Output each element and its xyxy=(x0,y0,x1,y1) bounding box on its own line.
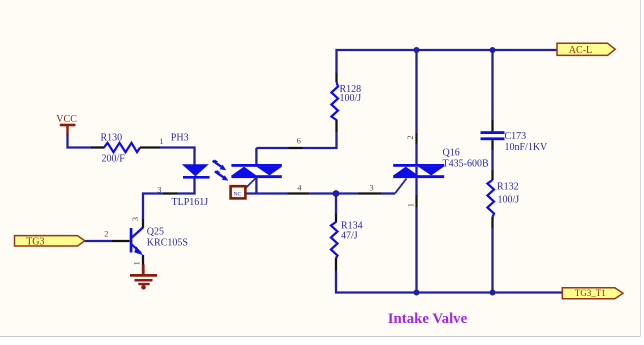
wire C173 branch from top rail xyxy=(491,50,493,120)
title Intake Valve xyxy=(388,311,468,327)
ground xyxy=(130,265,157,290)
resistor R130 xyxy=(101,133,141,165)
port TG3_T1 xyxy=(562,288,623,299)
svg-text:6: 6 xyxy=(297,136,302,146)
svg-text:100/J: 100/J xyxy=(340,93,362,104)
svg-text:C173: C173 xyxy=(505,131,527,142)
svg-text:1: 1 xyxy=(132,261,142,265)
pin 3 of U1 xyxy=(157,184,177,194)
svg-text:47/J: 47/J xyxy=(341,231,358,242)
wire pin3 to Q25 collector xyxy=(143,194,163,220)
svg-text:2: 2 xyxy=(104,229,108,239)
svg-text:T435-600B: T435-600B xyxy=(443,158,489,169)
no-ERC marker NC box xyxy=(231,186,246,198)
svg-text:200/F: 200/F xyxy=(102,153,126,164)
svg-text:TG3: TG3 xyxy=(26,237,44,248)
svg-text:3: 3 xyxy=(369,182,373,192)
wire pin2 to triac body xyxy=(415,144,417,165)
pin R128.top xyxy=(335,73,337,83)
svg-text:Intake Valve: Intake Valve xyxy=(388,311,468,327)
wire LED cathode down to pin3 net xyxy=(178,178,195,194)
svg-text:4: 4 xyxy=(297,183,302,193)
svg-text:R130: R130 xyxy=(101,133,123,144)
wire R134 to bottom rail xyxy=(336,271,563,293)
resistor R132 xyxy=(487,180,519,217)
transistor Q25 xyxy=(130,226,188,255)
wire Q16 pin1 down to bottom rail xyxy=(415,207,417,293)
wire mid net: NC box to junction xyxy=(247,192,288,194)
power port VCC xyxy=(56,114,77,135)
svg-text:1: 1 xyxy=(159,136,163,146)
resistor R128 xyxy=(331,82,361,120)
svg-text:10nF/1KV: 10nF/1KV xyxy=(505,142,549,153)
junction (492.5,50) xyxy=(490,47,496,53)
part name TLP161J xyxy=(172,197,209,208)
pin R132.top xyxy=(491,170,493,180)
svg-text:Q16: Q16 xyxy=(443,148,460,159)
port TG3 xyxy=(15,236,85,248)
pin 3 of Q25 (collector) xyxy=(130,217,143,228)
pin R134.bottom xyxy=(335,258,337,271)
pin C173.bottom xyxy=(491,140,493,150)
svg-text:VCC: VCC xyxy=(56,114,77,125)
junction (416.5,292.5) xyxy=(414,290,420,296)
svg-text:2: 2 xyxy=(405,135,415,139)
svg-text:KRC105S: KRC105S xyxy=(147,238,188,249)
light arrow 2 xyxy=(215,170,229,181)
pin R132.bottom xyxy=(491,217,493,228)
pin 1 of Q25 (emitter) xyxy=(132,255,144,266)
pin R128.bottom xyxy=(335,120,337,133)
pin 2 of Q16 xyxy=(405,133,417,144)
port AC-L xyxy=(557,43,615,56)
wire C173 to R132 xyxy=(491,150,493,170)
light arrow 1 xyxy=(213,159,227,170)
pin 1 of Q16 xyxy=(406,195,417,207)
resistor R134 xyxy=(331,221,363,258)
wire pin6 to R128 xyxy=(303,132,337,149)
svg-text:AC-L: AC-L xyxy=(569,45,592,56)
pin 4 of U1 xyxy=(288,183,310,194)
opto LED of U1 xyxy=(182,164,210,178)
pin R130.left xyxy=(91,146,105,148)
wire TG3 to Q25 base xyxy=(85,240,112,242)
svg-text:NC: NC xyxy=(234,192,242,198)
svg-text:PH3: PH3 xyxy=(171,133,189,144)
wire R132 to bottom rail xyxy=(491,228,493,293)
svg-text:Q25: Q25 xyxy=(147,226,164,237)
junction (416.5,50) xyxy=(414,47,420,53)
pin 2 of Q25 (base) xyxy=(104,229,129,241)
wire pin4 to junction xyxy=(309,192,358,194)
pin R134.top xyxy=(335,214,337,223)
svg-text:R132: R132 xyxy=(497,181,519,192)
pin 6 of U1 xyxy=(289,136,303,148)
wire VCC to R130 xyxy=(68,135,92,148)
svg-text:3: 3 xyxy=(130,217,140,221)
net label PH3 xyxy=(171,133,189,144)
wire pin6 net xyxy=(256,147,288,149)
opto photo-triac of U1 xyxy=(231,148,282,194)
junction (336,193.5) xyxy=(333,190,340,197)
pin C173.top xyxy=(491,120,493,131)
wire pin1 to LED anode xyxy=(160,148,195,166)
wire R128 to top rail, AC-L rail xyxy=(337,50,558,73)
svg-text:1: 1 xyxy=(406,203,416,207)
wire triac bottom xyxy=(415,177,417,195)
svg-text:TG3_T1: TG3_T1 xyxy=(575,288,606,298)
capacitor C173 xyxy=(481,131,549,153)
junction (492.5,292.5) xyxy=(490,290,496,296)
pin R130.right / pin 1 of U1 LED xyxy=(140,136,164,147)
triac Q16 xyxy=(393,148,489,194)
wire gate stub xyxy=(381,192,395,194)
wire AC-L rail down to Q16 pin2 xyxy=(415,50,417,133)
svg-text:TLP161J: TLP161J xyxy=(172,197,209,208)
wire junction down to R134 xyxy=(335,194,337,215)
pin 3 of Q16 (gate) xyxy=(358,182,381,193)
svg-text:100/J: 100/J xyxy=(498,194,520,205)
